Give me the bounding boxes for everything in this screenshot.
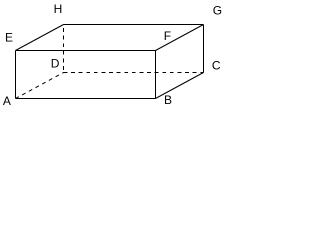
svg-text:C: C [212, 58, 221, 72]
wire edge FB (right front vertical) [155, 51, 157, 99]
wire edge EH (top left slant) [16, 25, 64, 51]
svg-text:F: F [164, 29, 171, 43]
wire edge HG (top back) [64, 24, 204, 26]
wire edge DC (hidden, dashed) [64, 72, 204, 74]
wire edge BC (bottom right slant) [156, 73, 204, 99]
svg-text:B: B [164, 93, 172, 107]
wire edge AB (bottom front) [16, 98, 156, 100]
wire edge GC (right back vertical) [203, 25, 205, 73]
svg-text:A: A [3, 94, 11, 108]
wire edge DH (hidden, dashed) [63, 25, 65, 73]
svg-text:E: E [5, 30, 13, 44]
wire edge AE (left front vertical) [15, 51, 17, 99]
svg-text:G: G [213, 4, 222, 18]
svg-text:H: H [54, 2, 63, 16]
wire edge AD (hidden, dashed) [16, 73, 64, 99]
wire edge FG (top right slant) [156, 25, 204, 51]
wire edge EF (top front) [16, 50, 156, 52]
svg-text:D: D [51, 57, 60, 71]
